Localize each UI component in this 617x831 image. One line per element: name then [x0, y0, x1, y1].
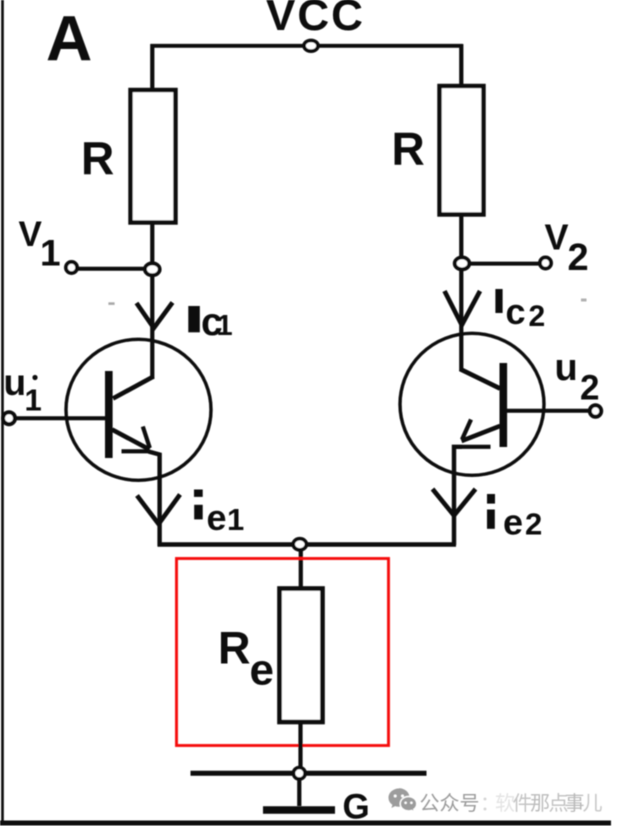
svg-text:V: V	[545, 217, 569, 258]
wire Re to ground rail	[298, 722, 302, 773]
svg-text:A: A	[46, 3, 92, 75]
wire node to ground bar	[297, 779, 301, 806]
svg-text:e: e	[207, 497, 227, 538]
svg-text:公众号: 公众号	[420, 792, 480, 815]
svg-text:G: G	[343, 788, 370, 827]
svg-text:u: u	[555, 347, 578, 389]
transistor Q1 collector diagonal	[113, 377, 154, 399]
transistor Q2 circle	[400, 333, 544, 475]
wire left collector run	[150, 222, 154, 379]
transistor Q2 base bar	[500, 363, 508, 447]
wire V2 link	[468, 262, 541, 266]
svg-text:1: 1	[227, 502, 244, 537]
node V2	[455, 257, 470, 269]
terminal u2	[590, 405, 601, 416]
svg-text:儿: 儿	[583, 793, 603, 815]
svg-text:2: 2	[580, 369, 599, 408]
label Ic2	[495, 289, 502, 313]
terminal V1	[66, 262, 77, 273]
svg-text:1: 1	[40, 233, 61, 274]
label ie1	[194, 490, 203, 497]
svg-text:R: R	[392, 123, 425, 175]
border left edge	[1, 0, 4, 823]
node ground	[294, 768, 306, 780]
resistor Re	[280, 589, 323, 723]
svg-text:c: c	[506, 291, 526, 332]
wire u1 base	[15, 416, 105, 420]
transistor Q2 emitter diagonal	[462, 426, 501, 441]
ground rail	[191, 771, 427, 776]
resistor R1 (left)	[131, 90, 176, 223]
svg-text:u: u	[4, 362, 27, 403]
svg-text:VCC: VCC	[266, 0, 365, 40]
terminal u1	[3, 412, 15, 424]
wire u2 base	[506, 409, 590, 413]
transistor Q2 emitter arrow barbs	[462, 420, 471, 440]
svg-text:那: 那	[530, 793, 550, 815]
svg-text:R: R	[218, 623, 251, 674]
transistor Q1 emitter arrow barbs	[143, 427, 150, 449]
wire emitter bus	[158, 542, 457, 547]
svg-text:V: V	[19, 215, 43, 254]
svg-text:2: 2	[525, 507, 542, 542]
node VCC	[304, 40, 318, 51]
svg-text:2: 2	[529, 300, 546, 333]
terminal V2	[540, 257, 551, 268]
arrow ie2	[433, 489, 476, 516]
svg-text:R: R	[81, 132, 114, 184]
wire Q2 emitter down	[454, 447, 462, 545]
arrow Ic1	[137, 303, 173, 329]
svg-text:e: e	[250, 646, 274, 695]
ground bar	[263, 806, 335, 814]
wire top rail	[151, 44, 463, 48]
highlight box (red) around Re	[177, 559, 389, 746]
wire right drop from rail	[459, 44, 463, 86]
svg-text:1: 1	[25, 383, 42, 418]
svg-text:2: 2	[568, 237, 589, 279]
wire Q1 emitter down	[149, 452, 160, 547]
arrow ie1	[137, 495, 180, 525]
wire right collector run	[459, 214, 463, 371]
node V1	[145, 263, 160, 275]
svg-text:1: 1	[217, 310, 233, 342]
watermark logo (chat bubbles)	[389, 788, 417, 812]
wire V1 link	[76, 267, 147, 271]
label Ic1	[188, 306, 200, 332]
border bottom edge	[0, 821, 611, 826]
wire junction to Re	[299, 548, 303, 588]
artifact dash	[108, 302, 114, 305]
watermark text	[420, 792, 603, 815]
transistor Q1 emitter diagonal	[112, 430, 150, 450]
label ie2	[487, 494, 495, 504]
node emitter junction	[293, 539, 306, 550]
svg-text:事: 事	[565, 792, 585, 815]
svg-text:e: e	[503, 502, 523, 543]
artifact dot	[581, 299, 587, 302]
resistor R2 (right)	[440, 86, 484, 215]
wire left drop from rail	[150, 44, 154, 90]
transistor Q1 base bar	[105, 371, 113, 458]
transistor Q2 collector diagonal	[460, 369, 500, 389]
transistor Q1 circle	[66, 339, 211, 480]
arrow Ic2	[445, 291, 481, 325]
